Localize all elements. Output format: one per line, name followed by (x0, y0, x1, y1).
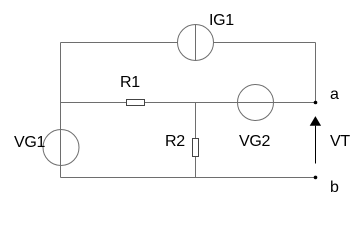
wire bottom horizontal (61, 177, 316, 179)
wire right vertical (315, 43, 317, 103)
node b dot (314, 176, 318, 180)
label VT (330, 134, 350, 150)
node a dot (314, 101, 318, 105)
current source IG1 (178, 25, 214, 61)
label VG2 (239, 134, 270, 150)
VT arrow head (310, 116, 321, 126)
label node b (330, 180, 339, 196)
voltage source VG1 (43, 130, 79, 166)
wire top right horizontal (214, 42, 316, 44)
label R2 (165, 134, 185, 150)
label VG1 (14, 135, 45, 151)
voltage source VG2 (238, 85, 274, 121)
wire top left horizontal (61, 42, 178, 44)
wire R2 branch vertical (195, 103, 197, 178)
VT arrow line (315, 126, 317, 164)
resistor R2 (193, 139, 199, 157)
label node a (330, 87, 339, 103)
resistor R1 (127, 100, 145, 106)
label IG1 (209, 13, 234, 29)
wire left vertical (60, 43, 62, 178)
label R1 (120, 75, 140, 91)
wire middle horizontal (61, 102, 316, 104)
